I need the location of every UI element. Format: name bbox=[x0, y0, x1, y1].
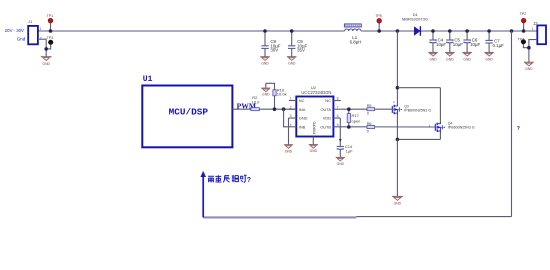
svg-text:1µF: 1µF bbox=[346, 149, 354, 154]
wire INB branch bbox=[284, 109, 289, 127]
svg-text:GND: GND bbox=[285, 149, 293, 153]
capacitor C4 bbox=[429, 31, 436, 52]
wire J2 pin2 bbox=[529, 40, 537, 62]
test point TP3 bbox=[46, 40, 53, 49]
pin U2-8 stub bbox=[333, 100, 340, 102]
svg-text:Gnd: Gnd bbox=[17, 36, 26, 41]
wire source to ground bbox=[396, 139, 398, 196]
svg-text:2: 2 bbox=[290, 105, 292, 109]
resistor R16 bbox=[266, 83, 276, 109]
node R17 bottom bbox=[347, 125, 351, 129]
wire switch node vertical bbox=[396, 31, 398, 105]
wire feedback bottom left bbox=[203, 216, 356, 218]
node TP5 junction bbox=[377, 29, 381, 33]
resistor R5 bbox=[367, 108, 375, 111]
svg-text:UCC27324DGN: UCC27324DGN bbox=[301, 90, 331, 95]
ground above R16 bbox=[261, 83, 270, 96]
inductor L1 bbox=[344, 24, 361, 31]
annotation arrow bbox=[200, 171, 206, 218]
svg-text:R5: R5 bbox=[367, 104, 372, 108]
svg-text:4: 4 bbox=[290, 123, 292, 127]
svg-text:GND: GND bbox=[463, 57, 471, 61]
pin U2-2 stub bbox=[289, 108, 296, 110]
svg-text:OUTB: OUTB bbox=[320, 125, 331, 130]
svg-text:1: 1 bbox=[290, 97, 292, 101]
svg-text:TP4: TP4 bbox=[518, 37, 525, 41]
svg-text:IPB600N25N3 G: IPB600N25N3 G bbox=[448, 125, 475, 129]
node source tie bbox=[396, 138, 400, 142]
svg-text:GND: GND bbox=[446, 57, 454, 61]
svg-text:1: 1 bbox=[40, 27, 42, 31]
ground C9 bbox=[287, 57, 297, 66]
svg-text:MCU/DSP: MCU/DSP bbox=[169, 106, 209, 117]
test point TP4 bbox=[521, 40, 529, 48]
svg-text:GND: GND bbox=[262, 93, 270, 97]
node TP1 junction bbox=[49, 29, 53, 33]
ground U2 pin3 bbox=[284, 118, 293, 153]
wire J1 pin2 bbox=[38, 39, 46, 56]
svg-text:U1: U1 bbox=[143, 75, 153, 84]
node J2 gnd junction bbox=[527, 46, 531, 50]
svg-text:PWRPD: PWRPD bbox=[312, 121, 316, 134]
svg-text:TP5: TP5 bbox=[375, 14, 382, 18]
svg-text:GND: GND bbox=[394, 202, 402, 206]
ground J2 bbox=[524, 62, 534, 71]
svg-text:8: 8 bbox=[337, 97, 339, 101]
svg-text:0: 0 bbox=[367, 130, 369, 134]
diode D1 bbox=[414, 26, 420, 36]
pin U2-6 stub bbox=[333, 117, 340, 119]
capacitor C5 bbox=[446, 31, 453, 52]
node C7 bbox=[487, 29, 491, 33]
node INB tie bbox=[282, 107, 286, 111]
label Chinese need feedback bbox=[208, 175, 247, 182]
wire OUTA to Q3 gate bbox=[341, 108, 392, 110]
ground J1 bbox=[41, 57, 52, 66]
wire feedback vertical bbox=[511, 31, 513, 217]
svg-text:TP1: TP1 bbox=[47, 14, 54, 18]
svg-text:10µF: 10µF bbox=[453, 42, 463, 47]
node C5 bbox=[448, 29, 452, 33]
capacitor C6 bbox=[463, 31, 470, 52]
transistor Q4 bbox=[435, 122, 445, 132]
node VDD cap arrow bbox=[339, 139, 342, 142]
pin U2-7 stub bbox=[333, 108, 340, 110]
svg-text:0.1µF: 0.1µF bbox=[493, 43, 505, 48]
svg-text:35V: 35V bbox=[297, 48, 305, 53]
svg-text:GND: GND bbox=[429, 57, 437, 61]
svg-text:5: 5 bbox=[337, 123, 339, 127]
svg-text:J2: J2 bbox=[533, 21, 538, 26]
svg-text:GND: GND bbox=[310, 149, 318, 153]
wire source tie horizontal bbox=[397, 138, 440, 140]
node C6 bbox=[465, 29, 469, 33]
node C8 bbox=[263, 29, 267, 33]
svg-text:NC: NC bbox=[299, 98, 305, 103]
svg-text:2: 2 bbox=[40, 36, 42, 40]
ground U2 powerpad bbox=[309, 137, 318, 154]
svg-text:GND: GND bbox=[337, 162, 345, 166]
node R17 top bbox=[347, 107, 351, 111]
svg-text:20V - 30V: 20V - 30V bbox=[5, 28, 24, 33]
ground C7 bbox=[484, 52, 494, 61]
connector J1 bbox=[28, 26, 38, 44]
ground C6 bbox=[462, 52, 472, 61]
svg-text:6.8µH: 6.8µH bbox=[350, 39, 362, 44]
svg-text:?: ? bbox=[247, 177, 251, 184]
wire drain tie horizontal bbox=[397, 87, 440, 89]
node C4 bbox=[431, 29, 435, 33]
svg-text:TP3: TP3 bbox=[47, 36, 54, 40]
ground C4 bbox=[428, 52, 438, 61]
pin U2-3 stub bbox=[289, 117, 297, 119]
svg-text:TP2: TP2 bbox=[520, 12, 527, 16]
op-amp U2 gate driver bbox=[296, 97, 333, 137]
svg-text:10.0k: 10.0k bbox=[277, 92, 287, 97]
svg-text:GND: GND bbox=[299, 116, 308, 121]
svg-text:1: 1 bbox=[532, 27, 534, 31]
connector J2 bbox=[537, 25, 546, 44]
pin U2-5 stub bbox=[333, 126, 340, 128]
ground C14 bbox=[336, 157, 345, 166]
test point TP5 bbox=[377, 19, 382, 32]
capacitor C7 bbox=[485, 31, 492, 52]
test point TP1 bbox=[48, 18, 53, 31]
node J1 gnd junction bbox=[44, 47, 48, 51]
resistor R2 bbox=[251, 108, 259, 111]
block U1 MCU bbox=[142, 86, 232, 148]
wire main rail mid segment (L1 to D1 anode) bbox=[361, 30, 414, 32]
ground C5 bbox=[445, 52, 455, 61]
svg-text:10µF: 10µF bbox=[436, 42, 446, 47]
node R16 junction bbox=[273, 107, 277, 111]
node C9 bbox=[290, 29, 294, 33]
node Q drain tie bbox=[396, 86, 400, 90]
resistor R17 bbox=[347, 109, 350, 127]
svg-text:6: 6 bbox=[337, 114, 339, 118]
node TP2 junction bbox=[522, 29, 526, 33]
node feedback tap bbox=[510, 29, 514, 33]
svg-text:MBRS320T3G: MBRS320T3G bbox=[402, 17, 428, 22]
svg-text:GND: GND bbox=[485, 57, 493, 61]
svg-text:IPB600N25N3 G: IPB600N25N3 G bbox=[404, 108, 431, 112]
wire OUTB to Q4 gate bbox=[341, 126, 435, 128]
svg-text:INA: INA bbox=[299, 107, 306, 112]
svg-text:VDD: VDD bbox=[323, 116, 331, 121]
capacitor C14 bbox=[337, 147, 344, 158]
svg-text:GND: GND bbox=[43, 62, 51, 66]
svg-text:10µF: 10µF bbox=[470, 42, 480, 47]
svg-text:3: 3 bbox=[290, 114, 292, 118]
node switch bbox=[396, 29, 400, 33]
wire Q3 source bbox=[396, 114, 398, 139]
pin U2-1 stub bbox=[289, 100, 296, 102]
svg-text:INB: INB bbox=[299, 125, 306, 130]
svg-text:10.0: 10.0 bbox=[252, 99, 261, 104]
wire main rail left segment bbox=[38, 30, 345, 32]
test point TP2 bbox=[521, 18, 526, 31]
wire PWM bbox=[232, 108, 296, 110]
svg-text:GND: GND bbox=[261, 62, 269, 66]
svg-text:GND: GND bbox=[525, 67, 533, 71]
svg-text:35V: 35V bbox=[270, 48, 278, 53]
wire feedback bottom right bbox=[356, 216, 511, 218]
svg-text:7: 7 bbox=[337, 105, 339, 109]
svg-text:R6: R6 bbox=[367, 122, 372, 126]
svg-text:OUTA: OUTA bbox=[320, 107, 331, 112]
wire Q4 drain vertical bbox=[439, 88, 441, 123]
svg-text:open: open bbox=[352, 119, 361, 124]
svg-text:0: 0 bbox=[367, 112, 369, 116]
wire main rail right segment (D1 cathode to J2) bbox=[421, 30, 538, 32]
svg-text:R17: R17 bbox=[352, 113, 360, 118]
ground C8 bbox=[260, 57, 270, 66]
svg-text:NC: NC bbox=[325, 98, 331, 103]
pin U2-4 stub bbox=[289, 126, 296, 128]
wire Q4 source bbox=[439, 132, 441, 140]
ground power stage bbox=[392, 196, 403, 205]
transistor Q3 bbox=[392, 105, 402, 115]
resistor R6 bbox=[367, 126, 375, 129]
capacitor C8 bbox=[261, 31, 268, 57]
wire VDD to C14 bbox=[339, 118, 341, 146]
svg-text:?: ? bbox=[517, 126, 520, 132]
capacitor C9 bbox=[288, 31, 295, 57]
svg-text:GND: GND bbox=[288, 62, 296, 66]
